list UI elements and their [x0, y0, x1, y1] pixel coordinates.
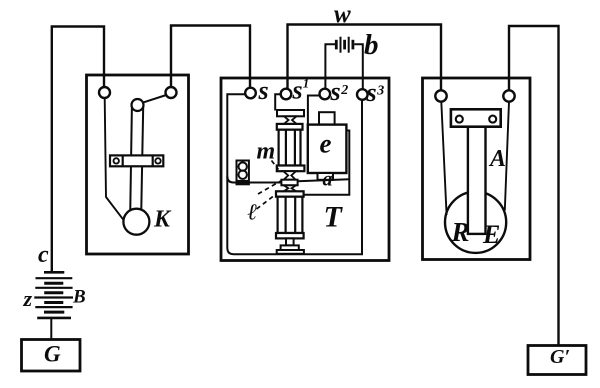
dashed pointer l to contact block	[258, 181, 281, 194]
wire: right terminal to circle	[505, 102, 509, 211]
wire w: terminal s1 to right box left terminal	[288, 25, 442, 91]
binding-post contact (two screws)	[237, 161, 249, 185]
coil 2 (lower winding)	[276, 191, 304, 238]
svg-text:b: b	[364, 29, 379, 61]
wire: right box right terminal to galvanometer G'	[509, 26, 559, 346]
wire: left box right terminal to middle box terminal s	[171, 26, 250, 89]
hourglass connector below contact block	[284, 185, 296, 191]
wire branch: to vibrating contact m	[227, 176, 281, 182]
pendulum rod	[130, 107, 143, 214]
terminal s3	[357, 89, 368, 100]
svg-text:w: w	[334, 1, 351, 28]
svg-text:1: 1	[303, 75, 310, 90]
svg-text:e: e	[320, 129, 332, 159]
wire: right terminal to pendulum pivot	[143, 95, 167, 103]
pendulum ball	[123, 209, 149, 235]
terminal s1	[281, 89, 292, 100]
svg-text:2: 2	[340, 83, 348, 98]
coil2 foot stem	[286, 238, 294, 245]
wire: battery B top to left box left terminal	[52, 27, 104, 272]
battery B plates	[34, 272, 73, 318]
induction coil: top cap bar	[277, 110, 304, 116]
middle box (transformer T)	[221, 78, 389, 261]
wire: s / contact / bottom bus / s3	[227, 94, 362, 254]
wire: battery B to galvanometer G	[50, 318, 52, 340]
electromagnet e top block	[319, 112, 335, 124]
electromagnet e bottom block	[318, 173, 334, 180]
dashed pointer l to coil2	[257, 194, 277, 209]
svg-text:a: a	[323, 169, 333, 191]
svg-text:E: E	[482, 220, 500, 249]
svg-text:3: 3	[376, 84, 384, 99]
contact block (interrupter of coil)	[281, 180, 297, 186]
svg-text:T: T	[324, 201, 344, 234]
galvanometer G' box	[528, 346, 586, 375]
wire a: contact block to right loop	[298, 179, 350, 181]
left box (interrupter K)	[87, 75, 189, 254]
battery b (between s2 and s3)	[325, 37, 362, 89]
hourglass connector above contact block	[283, 171, 296, 180]
svg-text:s: s	[292, 76, 303, 105]
svg-text:s: s	[258, 76, 269, 105]
svg-text:R: R	[451, 217, 470, 247]
circle with R E (relay coil)	[445, 192, 506, 253]
svg-text:K: K	[153, 207, 172, 233]
foot bar	[281, 245, 299, 250]
svg-text:A: A	[488, 146, 506, 172]
dashed pointer m to contact	[272, 161, 279, 170]
svg-text:s: s	[366, 78, 377, 107]
svg-text:z: z	[23, 286, 33, 311]
terminal s	[245, 88, 256, 99]
wire: left terminal down to contact at ball	[105, 98, 124, 220]
pendulum pivot circle	[132, 99, 144, 111]
svg-text:B: B	[72, 287, 86, 308]
svg-text:s: s	[330, 77, 341, 106]
crossbar with end screws	[110, 155, 163, 166]
svg-text:G: G	[44, 342, 61, 367]
terminal left-box left	[99, 87, 110, 98]
relay top bar with screws	[451, 109, 501, 126]
galvanometer G box	[22, 340, 81, 372]
terminal right-box left	[435, 90, 446, 101]
svg-text:c: c	[38, 242, 49, 268]
svg-text:ℓ: ℓ	[248, 200, 258, 225]
wire: left terminal to circle	[441, 102, 446, 215]
base plate	[277, 250, 304, 254]
armature bar	[468, 127, 486, 234]
wire: s2 to electromagnet e	[308, 96, 320, 125]
coil 1 (upper winding)	[277, 124, 305, 171]
wire: e to coil2 top (right loop)	[304, 131, 349, 195]
hourglass connector top	[284, 116, 297, 124]
terminal left-box right	[166, 87, 177, 98]
electromagnet e body	[308, 125, 347, 173]
wire: s1 to coil top flange	[275, 94, 281, 110]
terminal right-box right	[503, 90, 514, 101]
svg-text:G′: G′	[550, 346, 570, 368]
right box (receiver A)	[423, 78, 531, 260]
terminal s2	[320, 89, 331, 100]
